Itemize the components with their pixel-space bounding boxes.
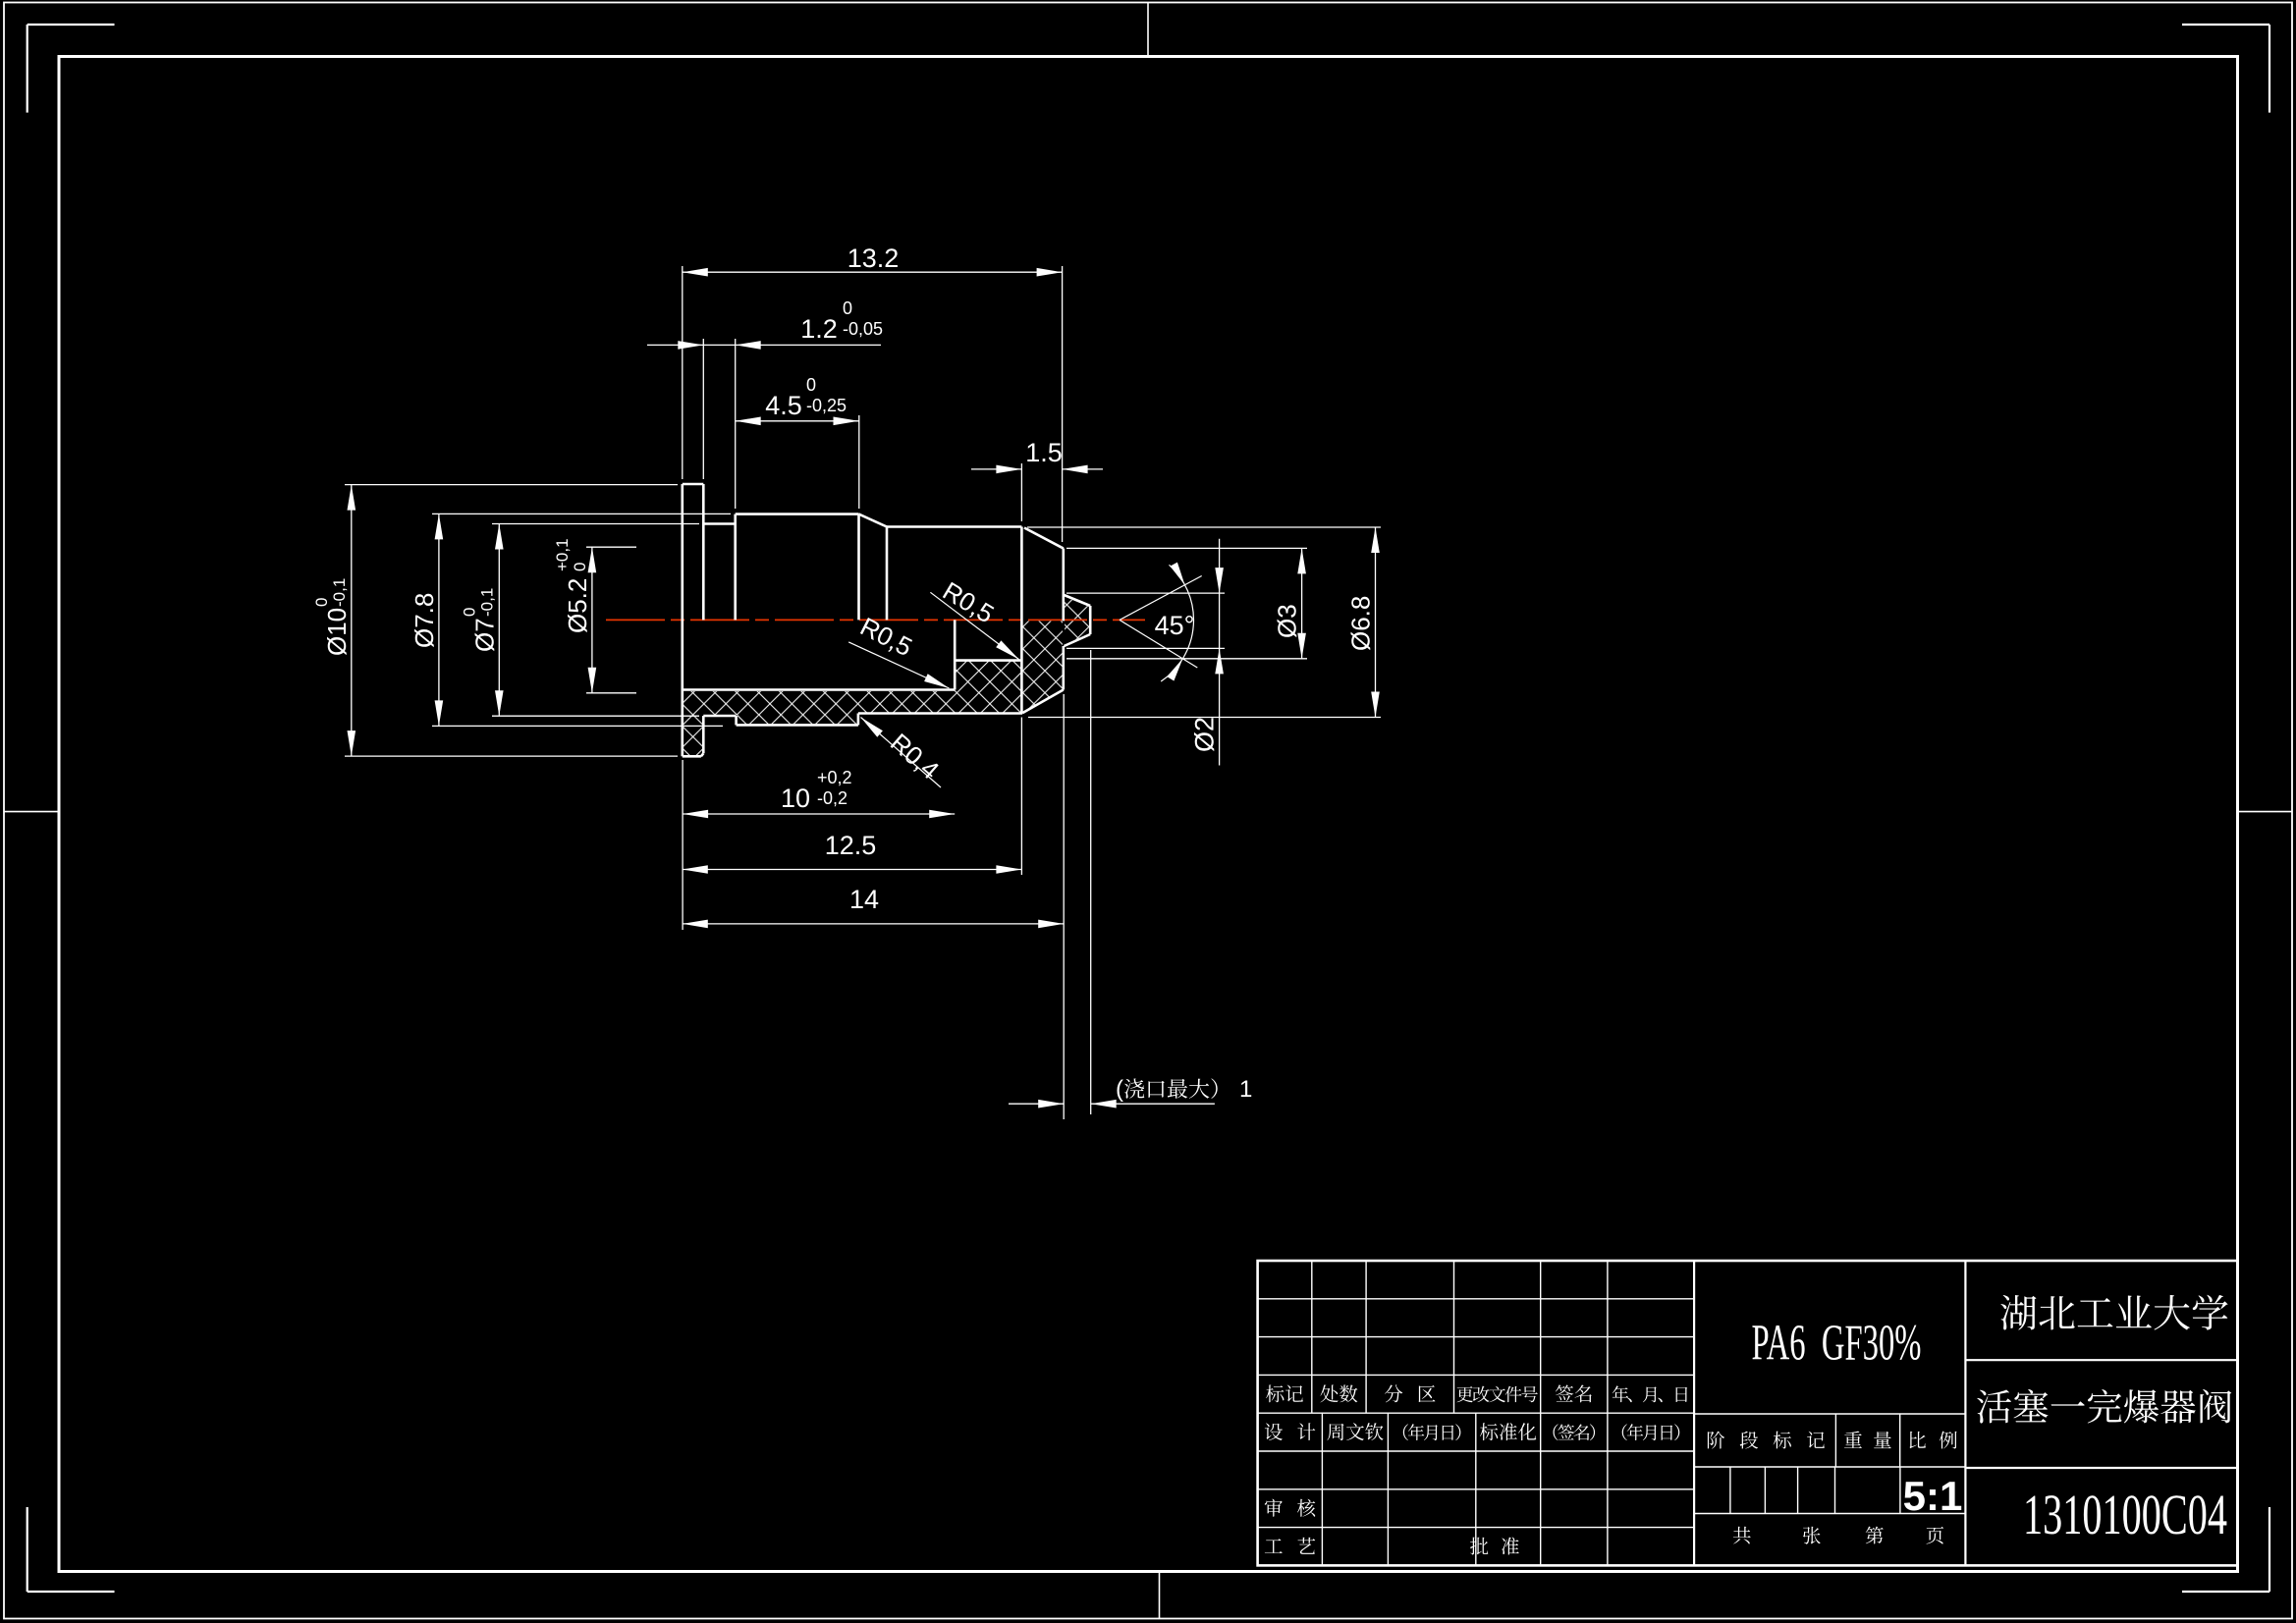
gate boss face <box>1089 606 1092 634</box>
svg-text:5:1: 5:1 <box>1903 1473 1963 1519</box>
svg-text:-0,05: -0,05 <box>843 319 883 339</box>
svg-text:45°: 45° <box>1155 611 1195 640</box>
label 重量 <box>1844 1432 1862 1448</box>
dim 14 <box>683 923 1064 925</box>
svg-text:+0,1: +0,1 <box>553 538 572 571</box>
groove right step edge <box>734 514 737 621</box>
leader R0,4 <box>861 718 942 788</box>
dim diam 3 <box>1301 548 1303 658</box>
tip chamfer top <box>1024 528 1062 548</box>
svg-text:1: 1 <box>1239 1076 1252 1103</box>
body diam7.8 top <box>736 513 859 515</box>
taper start edge <box>857 514 860 621</box>
flange right face upper <box>702 484 705 620</box>
corner trim mark top-left <box>27 24 115 26</box>
ext line diam5.2 top <box>586 546 636 548</box>
ext line tip end right <box>1062 266 1064 542</box>
label 审核 <box>1265 1499 1283 1517</box>
svg-text:Ø5.2: Ø5.2 <box>563 578 592 633</box>
ext line diam10 top <box>345 484 678 486</box>
label 比例 <box>1910 1432 1926 1448</box>
corner trim mark top-right <box>2182 24 2269 26</box>
svg-text:PA6 GF30%: PA6 GF30% <box>1752 1316 1922 1372</box>
title block vertical divider left of name cells <box>1964 1261 1966 1565</box>
svg-text:10: 10 <box>781 784 810 813</box>
part name 活塞—完爆器阀 <box>1977 1389 2011 1423</box>
ext line diam6.8 top <box>1027 526 1381 528</box>
dim diam 5.2 +0,1/0 <box>591 547 593 693</box>
flange bottom edge <box>683 755 701 758</box>
flange bottom chamfer <box>701 753 703 756</box>
svg-text:13.2: 13.2 <box>847 243 900 273</box>
tip end face upper <box>1063 549 1066 622</box>
small cells column dividers <box>1729 1467 1731 1514</box>
ext line diam6.8 bottom <box>1028 717 1381 719</box>
stage mark row bottom border <box>1694 1466 1965 1468</box>
ext line tip step <box>1020 463 1022 521</box>
label （年月日） <box>1622 1424 1627 1440</box>
dim 4.5 0/-0,25 <box>736 420 859 422</box>
leader R0,5 upper <box>930 592 1018 659</box>
ext line diam2 top <box>1066 592 1225 594</box>
gate boss hatch <box>1065 597 1089 645</box>
ext line groove right <box>735 339 737 509</box>
tip chamfer bottom <box>1022 690 1064 714</box>
ext line diam7 bottom <box>492 715 699 717</box>
title block outline <box>1258 1261 2238 1565</box>
ext line taper start <box>858 415 860 509</box>
label 处数 <box>1320 1384 1338 1402</box>
dim 12.5 <box>683 869 1022 871</box>
label 设计 <box>1265 1423 1283 1440</box>
groove diam7 bottom <box>703 715 736 718</box>
taper top <box>859 514 888 527</box>
label 年、月、日 <box>1613 1385 1629 1402</box>
svg-text:4.5: 4.5 <box>765 391 802 420</box>
ext line diam5.2 bottom <box>586 692 636 694</box>
title block vertical divider left of material cell <box>1693 1261 1695 1565</box>
taper end edge <box>886 527 889 621</box>
dim diam 7.8 <box>438 514 440 726</box>
centering mark bottom <box>1159 1572 1161 1619</box>
ext line diam10 bottom <box>345 755 678 757</box>
corner trim mark bottom-right <box>2182 1591 2269 1593</box>
school name 湖北工业大学 <box>2000 1295 2036 1330</box>
red centre line <box>606 619 1145 621</box>
svg-text:12.5: 12.5 <box>825 831 877 860</box>
label 签名 <box>1556 1384 1573 1401</box>
collar diam7.8 bottom <box>737 724 858 727</box>
ext line flange right <box>702 339 704 479</box>
gate boss top chamfer <box>1065 595 1091 606</box>
svg-text:0: 0 <box>460 608 478 617</box>
corner trim mark bottom-left <box>27 1591 115 1593</box>
label （签名） <box>1554 1424 1558 1440</box>
ext line flange left above <box>682 266 683 479</box>
svg-text:Ø7.8: Ø7.8 <box>410 593 439 648</box>
small cells row bottom border <box>1694 1513 1965 1515</box>
label 阶段标记 <box>1708 1432 1724 1449</box>
svg-text:-0,1: -0,1 <box>330 578 349 607</box>
dim diam 7 0/-0,1 <box>498 524 500 717</box>
svg-text:-0,1: -0,1 <box>477 588 496 617</box>
ext line tip step below <box>1020 718 1022 876</box>
dim diam 10 0/-0,1 <box>351 485 353 756</box>
stage mark row top border <box>1694 1413 1965 1415</box>
ext line diam3 top <box>1066 547 1307 549</box>
svg-text:-0,25: -0,25 <box>806 396 847 415</box>
label 批准 <box>1470 1538 1488 1555</box>
part name cell bottom border <box>1965 1467 2237 1469</box>
svg-text:0: 0 <box>312 598 331 607</box>
tip end face lower <box>1063 646 1066 690</box>
svg-text:-0,2: -0,2 <box>817 788 847 808</box>
title block signature table grid <box>1258 1412 1695 1414</box>
svg-text:+0,2: +0,2 <box>817 768 852 787</box>
ext line gate boss below <box>1090 650 1092 1114</box>
ext line flange left below <box>682 760 683 930</box>
svg-text:1.2: 1.2 <box>800 314 838 344</box>
svg-text:14: 14 <box>849 885 879 914</box>
label 分区 <box>1385 1384 1402 1402</box>
collar right step R0.4 <box>857 714 860 726</box>
svg-text:0: 0 <box>843 298 852 318</box>
label 标准化 <box>1480 1423 1498 1440</box>
school cell bottom border <box>1965 1359 2237 1361</box>
svg-text:(: ( <box>1116 1076 1123 1103</box>
dim 45 degree cone angle <box>1120 576 1202 621</box>
centering mark left <box>4 811 59 813</box>
section hatch (non-metal crosshatch) <box>683 622 1064 756</box>
label 周文钦 <box>1327 1424 1343 1440</box>
dim 13.2 <box>683 271 1063 273</box>
bore diam5.2 wall <box>683 688 955 691</box>
dim gate max 1 <box>1009 1103 1064 1105</box>
ext line diam7.8 bottom <box>432 725 723 727</box>
gate boss bottom chamfer <box>1065 634 1091 646</box>
svg-text:1310100C04: 1310100C04 <box>2023 1483 2227 1546</box>
label 更改文件号 <box>1456 1386 1473 1402</box>
flange top edge <box>683 483 704 486</box>
collar step edge <box>735 716 738 725</box>
ext line diam3 bottom <box>1066 658 1307 660</box>
svg-text:Ø3: Ø3 <box>1273 604 1302 638</box>
stage mark column dividers <box>1834 1414 1836 1467</box>
dim 1.5 <box>971 468 1021 470</box>
svg-text:1.5: 1.5 <box>1025 438 1063 467</box>
tip step face <box>1020 527 1023 714</box>
dim 10 +0,2/-0,2 <box>683 813 955 815</box>
dim diam 6.8 <box>1375 527 1377 718</box>
label 标记 <box>1266 1384 1284 1402</box>
body diam6.8 bottom <box>858 712 1022 715</box>
svg-text:Ø2: Ø2 <box>1190 717 1220 752</box>
ext line diam2 bottom <box>1066 647 1225 649</box>
ext line diam7 top <box>492 523 699 525</box>
bore end step <box>954 620 957 689</box>
ext line diam7.8 top <box>432 513 731 514</box>
svg-text:Ø10: Ø10 <box>322 608 352 656</box>
title block revision table grid <box>1258 1298 1695 1300</box>
centering mark right <box>2238 811 2293 813</box>
body diam6.8 top <box>887 525 1021 528</box>
flange right face lower <box>702 716 705 753</box>
ext line tip face below <box>1063 694 1065 1119</box>
groove diam7 top <box>703 522 735 525</box>
dim 1.2 0/-0,05 <box>647 344 881 346</box>
svg-text:0: 0 <box>571 563 589 571</box>
tip end top corner <box>1062 547 1064 548</box>
slot diam3 wall <box>955 659 1021 662</box>
leader R0,5 lower <box>848 642 949 688</box>
label 工艺 <box>1265 1539 1283 1553</box>
svg-text:0: 0 <box>806 375 816 395</box>
label （年月日） <box>1403 1424 1408 1440</box>
svg-text:Ø7: Ø7 <box>469 618 499 652</box>
flange left face <box>681 484 683 756</box>
dim diam 2 <box>1219 539 1221 766</box>
svg-text:Ø6.8: Ø6.8 <box>1346 596 1376 651</box>
label 共张第页 <box>1733 1527 1751 1544</box>
centering mark top <box>1147 3 1149 57</box>
